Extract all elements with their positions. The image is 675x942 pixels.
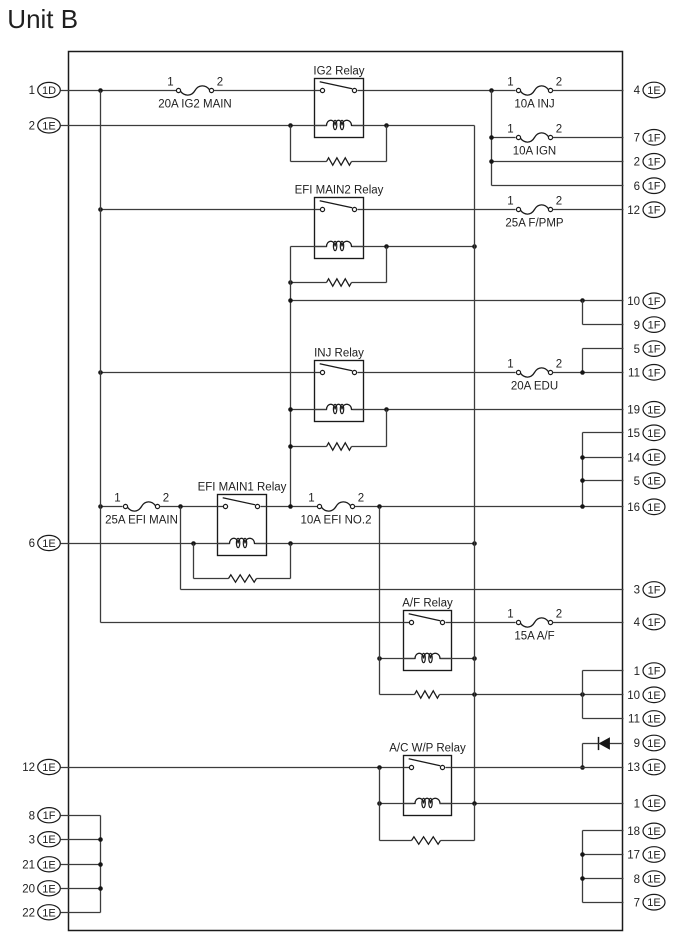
svg-text:19: 19 <box>627 405 640 417</box>
svg-text:1E: 1E <box>42 883 55 895</box>
svg-text:11: 11 <box>628 368 640 380</box>
pin 20 (1E) left <box>22 881 60 896</box>
svg-text:15A A/F: 15A A/F <box>514 630 554 642</box>
svg-text:20: 20 <box>22 884 35 896</box>
svg-text:1E: 1E <box>647 714 660 726</box>
relay INJ: switch contact <box>315 364 364 375</box>
svg-text:1E: 1E <box>647 85 660 97</box>
wire control bus to pin 10(1F) <box>288 298 623 303</box>
pin 3 (1F) right <box>634 582 665 598</box>
wire pin 8(1E) tie <box>580 876 623 881</box>
svg-text:2: 2 <box>634 157 640 169</box>
wire pin 18(1E) tie <box>583 831 624 903</box>
pin 7 (1F) right <box>634 130 665 146</box>
svg-text:9: 9 <box>634 738 640 750</box>
pin 10 (1F) right <box>627 293 665 309</box>
node: top-right bus tap on 4(1E) line <box>489 88 494 93</box>
svg-text:22: 22 <box>22 908 35 920</box>
wire pin 5(1E) tie <box>580 478 623 483</box>
svg-text:1: 1 <box>507 77 513 89</box>
node: A/F coil tap on EFI NO.2 bus <box>377 656 382 661</box>
pin 8 (1F) left <box>29 808 61 823</box>
wire pin1(1D) to fuse 20A IG2 MAIN <box>61 90 177 92</box>
pin 3 (1E) left <box>29 832 61 847</box>
svg-text:1: 1 <box>114 493 120 505</box>
svg-text:1E: 1E <box>647 738 660 750</box>
svg-text:10: 10 <box>627 690 640 702</box>
svg-text:1: 1 <box>634 798 640 810</box>
wire pin 12(1E) to A/C W/P switch <box>61 767 404 769</box>
svg-text:1E: 1E <box>647 826 660 838</box>
relay A/C W/P: box <box>389 743 466 816</box>
svg-text:1E: 1E <box>647 762 660 774</box>
pin 11 (1E) right <box>628 711 665 727</box>
relay A/F: coil <box>404 653 452 663</box>
node: IG2 resistor left tap <box>288 123 293 128</box>
svg-text:5: 5 <box>634 344 640 356</box>
wire EFI NO.2 output bus <box>379 507 381 695</box>
wire fuse to EFI MAIN1 relay switch <box>160 506 218 508</box>
node: A/C W/P coil left tap <box>377 801 382 806</box>
svg-text:2: 2 <box>556 196 562 208</box>
pin 8 (1E) right <box>634 871 665 887</box>
svg-text:1E: 1E <box>42 859 55 871</box>
relay INJ: box <box>314 348 364 422</box>
pin 22 (1E) left <box>22 905 60 920</box>
svg-text:1F: 1F <box>43 810 56 822</box>
wire pin 3(1E) tie <box>61 837 103 842</box>
wire feed bus to INJ relay switch <box>101 372 315 374</box>
svg-text:2: 2 <box>163 493 169 505</box>
fuse 10A INJ <box>507 77 562 111</box>
svg-text:17: 17 <box>627 850 640 862</box>
wire A/C W/P coil line to pin 1(1E) <box>380 803 624 805</box>
svg-text:2: 2 <box>556 77 562 89</box>
wire fuse 10A INJ to pin 4(1E) <box>553 90 624 92</box>
node: IG2 resistor right tap <box>384 123 389 128</box>
relay EFI MAIN1: switch contact <box>218 498 267 509</box>
pin 10 (1E) right <box>627 687 665 703</box>
diode (cathode left) <box>599 737 610 750</box>
pin 6 (1E) left <box>29 535 61 550</box>
svg-text:EFI MAIN1 Relay: EFI MAIN1 Relay <box>198 482 287 494</box>
wire EFI MAIN1 output tap to pin 3(1F) <box>181 507 624 590</box>
relay IG2: coil <box>315 120 364 130</box>
svg-text:1E: 1E <box>42 907 55 919</box>
svg-text:20A IG2 MAIN: 20A IG2 MAIN <box>158 98 232 110</box>
wire feed bus down to A/F relay switch <box>101 507 404 623</box>
wire pin 8(1F) tie <box>61 816 101 913</box>
svg-text:1E: 1E <box>42 120 55 132</box>
svg-text:1E: 1E <box>647 502 660 514</box>
svg-text:11: 11 <box>628 714 640 726</box>
svg-text:15: 15 <box>627 428 640 440</box>
wire INJ switch to fuse 20A EDU <box>364 372 516 374</box>
unit boundary box <box>69 52 623 931</box>
svg-text:1E: 1E <box>647 850 660 862</box>
svg-text:1E: 1E <box>647 690 660 702</box>
wire fuse 10A EFI NO.2 to pin 16(1E) <box>355 506 624 508</box>
relay A/C W/P: switch contact <box>404 759 452 770</box>
relay IG2: box <box>313 66 364 138</box>
resistor across IG2 coil <box>291 126 387 166</box>
wire feed bus to fuse 25A EFI MAIN <box>98 504 122 509</box>
svg-text:20A EDU: 20A EDU <box>511 380 558 392</box>
pin 9 (1F) right <box>634 317 665 333</box>
wire bus to pin 2(1F) <box>489 159 623 164</box>
node: INJ feed tap <box>98 370 103 375</box>
pin 15 (1E) right <box>627 425 665 441</box>
svg-text:1E: 1E <box>42 834 55 846</box>
fuse 20A IG2 MAIN <box>158 77 232 111</box>
svg-text:1: 1 <box>167 77 173 89</box>
pin 17 (1E) right <box>627 847 665 863</box>
svg-text:1E: 1E <box>647 428 660 440</box>
svg-text:1F: 1F <box>648 181 661 193</box>
wire bus to fuse 10A IGN <box>492 137 516 139</box>
node: 3(1F) tap <box>178 504 183 509</box>
relay EFI MAIN2: coil <box>315 241 364 251</box>
relay IG2: switch contact <box>315 82 364 93</box>
relay A/F: box <box>402 598 453 671</box>
node: A/F resistor / coil-return bus junction <box>472 692 477 697</box>
svg-text:IG2 Relay: IG2 Relay <box>313 66 364 78</box>
svg-text:5: 5 <box>634 476 640 488</box>
wire pin 22(1E) tie <box>61 912 101 914</box>
fuse 15A A/F <box>507 609 562 643</box>
svg-text:1E: 1E <box>647 874 660 886</box>
pin 1 (1D) left <box>29 82 61 97</box>
svg-text:10A EFI NO.2: 10A EFI NO.2 <box>301 514 372 526</box>
pin 9 (1E) right <box>634 735 665 751</box>
svg-text:1: 1 <box>507 124 513 136</box>
wire diode to 13(1E) line <box>583 744 599 768</box>
node: EFI MAIN2 resistor right tap <box>384 244 389 249</box>
pin 6 (1F) right <box>634 178 665 194</box>
node: A/C W/P coil feed tap <box>377 765 382 770</box>
svg-text:1E: 1E <box>647 897 660 909</box>
svg-text:1E: 1E <box>647 476 660 488</box>
wire pin 7(1E) tie <box>583 902 624 904</box>
svg-text:2: 2 <box>29 121 35 133</box>
wire fuse 15A A/F to pin 4(1F) <box>553 622 624 624</box>
svg-text:3: 3 <box>29 834 35 846</box>
svg-text:1F: 1F <box>648 320 661 332</box>
node: EFI MAIN2 resistor tap on control bus <box>288 280 293 285</box>
node: EFI NO.2 output bus tap <box>377 504 382 509</box>
resistor across A/C W/P coil <box>380 804 475 845</box>
wire EFI NO.2 bus to A/F coil and coil-return bus <box>380 658 475 660</box>
svg-text:13: 13 <box>627 762 640 774</box>
svg-text:1F: 1F <box>648 156 661 168</box>
svg-text:1E: 1E <box>42 762 55 774</box>
wire pin 20(1E) tie <box>61 886 103 891</box>
pin 12 (1E) left <box>22 759 60 774</box>
pin 1 (1F) right <box>634 663 665 679</box>
node: feed bus tap at pin1 line <box>98 88 103 93</box>
svg-text:1E: 1E <box>647 404 660 416</box>
fuse 25A EFI MAIN <box>105 493 178 527</box>
svg-text:2: 2 <box>556 359 562 371</box>
pin 18 (1E) right <box>627 823 665 839</box>
svg-text:16: 16 <box>627 502 640 514</box>
wire fuse 10A IGN to pin 7(1F) <box>553 137 624 139</box>
svg-text:25A F/PMP: 25A F/PMP <box>505 217 563 229</box>
pin 13 (1E) right <box>627 759 665 775</box>
svg-text:10A INJ: 10A INJ <box>514 98 554 110</box>
wire pin 6(1E) to EFI MAIN1 coil and to coil-return bus <box>61 543 475 545</box>
node: INJ resistor right tap <box>384 407 389 412</box>
node: INJ resistor tap on control bus <box>288 444 293 449</box>
fuse 10A IGN <box>507 124 562 158</box>
relay INJ: coil <box>315 404 364 414</box>
node: diode tap on 13(1E) line <box>580 765 585 770</box>
svg-text:12: 12 <box>627 205 640 217</box>
svg-text:6: 6 <box>29 538 35 550</box>
node: EFI MAIN1 resistor right tap <box>288 541 293 546</box>
wire main feed bus from pin 1(1D) <box>100 91 102 507</box>
svg-text:INJ Relay: INJ Relay <box>314 348 364 360</box>
relay A/F: switch contact <box>404 614 452 625</box>
node: EFI MAIN1 resistor left tap <box>191 541 196 546</box>
wire pin2(1E) to IG2 coil and on to coil-return bus <box>61 125 475 127</box>
svg-text:4: 4 <box>634 617 641 629</box>
fuse 20A EDU <box>507 359 562 393</box>
wire pin 17(1E) tie <box>580 852 623 857</box>
resistor across A/F coil, line continues to pin 10(1E) <box>380 691 624 698</box>
wire feed bus to EFI MAIN2 switch <box>101 209 315 211</box>
svg-text:1D: 1D <box>42 85 56 97</box>
svg-text:25A EFI MAIN: 25A EFI MAIN <box>105 514 178 526</box>
svg-text:2: 2 <box>556 609 562 621</box>
svg-text:8: 8 <box>634 874 640 886</box>
relay A/C W/P: coil <box>404 798 452 808</box>
svg-text:1F: 1F <box>648 205 661 217</box>
svg-text:6: 6 <box>634 181 640 193</box>
wire A/F switch to fuse 15A A/F <box>452 622 516 624</box>
wire pin 11(1E) tie <box>583 718 624 720</box>
node: A/C W/P coil return (end of coil-return bus) <box>472 801 477 806</box>
node: 10(1E) tie junction <box>580 692 585 697</box>
node: A/F coil return tap <box>472 656 477 661</box>
svg-text:A/F Relay: A/F Relay <box>402 598 453 610</box>
svg-text:7: 7 <box>634 897 640 909</box>
wire INJ coil line to pin 19(1E) <box>291 409 624 411</box>
svg-text:1F: 1F <box>648 367 661 379</box>
pin 19 (1E) right <box>627 402 665 418</box>
svg-text:1F: 1F <box>648 344 661 356</box>
svg-text:1: 1 <box>507 196 513 208</box>
relay EFI MAIN2: box <box>295 185 384 259</box>
wire pin 1(1F) tie <box>583 671 624 719</box>
wire fuse 25A F/PMP to pin 12(1F) <box>553 209 624 211</box>
pin 11 (1F) right <box>628 365 665 381</box>
svg-text:A/C W/P Relay: A/C W/P Relay <box>389 743 466 755</box>
node: INJ coil tap on control bus <box>288 407 293 412</box>
wire EFI MAIN2 switch to fuse 25A F/PMP <box>364 209 516 211</box>
svg-text:1E: 1E <box>647 798 660 810</box>
wire IG2 relay switch to fuse 10A INJ <box>364 90 516 92</box>
pin 5 (1E) right <box>634 473 665 489</box>
svg-text:8: 8 <box>29 810 35 822</box>
pin 7 (1E) right <box>634 894 665 910</box>
wire A/C W/P switch to pin 13(1E) <box>452 767 624 769</box>
pin 21 (1E) left <box>22 857 60 872</box>
wire fuse to IG2 relay switch <box>214 90 315 92</box>
svg-text:4: 4 <box>634 85 641 97</box>
svg-text:Unit B: Unit B <box>7 4 78 34</box>
svg-text:1: 1 <box>634 666 640 678</box>
node: 16(1E) tie <box>580 504 585 509</box>
svg-text:3: 3 <box>634 585 640 597</box>
wire pin 5(1F) tie <box>580 349 623 375</box>
svg-text:1: 1 <box>29 85 35 97</box>
svg-text:1E: 1E <box>647 452 660 464</box>
wire A/C W/P switch feed down to resistor <box>379 768 381 841</box>
wire relay control bus (EFI MAIN1 output) <box>290 247 292 507</box>
resistor across EFI MAIN1 coil <box>194 544 291 583</box>
wire top-right distribution bus <box>492 91 624 186</box>
resistor across EFI MAIN2 coil <box>291 247 387 287</box>
wire EFI MAIN2 coil line to buses <box>291 246 475 248</box>
svg-text:1: 1 <box>507 609 513 621</box>
pin 5 (1F) right <box>634 341 665 357</box>
pin 16 (1E) right <box>627 499 665 515</box>
fuse 10A EFI NO.2 <box>301 493 372 527</box>
node: EFI MAIN1 coil return tap <box>472 541 477 546</box>
node: EFI MAIN2 feed tap <box>98 207 103 212</box>
wire pin 15(1E) tie <box>583 433 624 507</box>
relay EFI MAIN2: switch contact <box>315 201 364 212</box>
svg-text:21: 21 <box>22 860 35 872</box>
wire EFI MAIN1 switch to fuse 10A EFI NO.2 <box>267 506 318 508</box>
wire coil-return bus (from IG2 coil) <box>474 126 476 804</box>
wire pin 14(1E) tie <box>580 455 623 460</box>
resistor across INJ coil <box>291 410 387 451</box>
relay EFI MAIN1: coil <box>218 538 267 548</box>
svg-text:18: 18 <box>627 826 640 838</box>
relay EFI MAIN1: box <box>198 482 287 556</box>
wire tie to pin 9(1F) <box>583 301 624 325</box>
fuse 25A F/PMP <box>505 196 563 230</box>
svg-text:1F: 1F <box>648 666 661 678</box>
wire fuse 20A EDU to pin 11(1F) <box>553 372 624 374</box>
svg-text:1: 1 <box>308 493 314 505</box>
node: 10A IGN tap <box>489 135 494 140</box>
svg-text:1F: 1F <box>648 617 661 629</box>
svg-text:1F: 1F <box>648 585 661 597</box>
svg-text:1F: 1F <box>648 296 661 308</box>
svg-text:2: 2 <box>358 493 364 505</box>
wire pin 9(1E) to diode <box>610 743 624 745</box>
wire pin 21(1E) tie <box>61 862 103 867</box>
pin 12 (1F) right <box>627 202 665 218</box>
pin 2 (1F) right <box>634 154 665 170</box>
svg-text:1: 1 <box>507 359 513 371</box>
node: 10(1F)/9(1F) tie <box>580 298 585 303</box>
pin 1 (1E) right <box>634 795 665 811</box>
node: control bus source at EFI MAIN1 output <box>288 504 293 509</box>
svg-text:2: 2 <box>217 77 223 89</box>
pin 14 (1E) right <box>627 449 665 465</box>
pin 4 (1E) right <box>634 82 665 98</box>
svg-text:1F: 1F <box>648 132 661 144</box>
svg-text:7: 7 <box>634 133 640 145</box>
node: EFI MAIN2 coil return tap <box>472 244 477 249</box>
svg-text:12: 12 <box>22 762 35 774</box>
svg-text:2: 2 <box>556 124 562 136</box>
svg-text:10A IGN: 10A IGN <box>513 145 556 157</box>
svg-text:9: 9 <box>634 320 640 332</box>
svg-text:1E: 1E <box>42 538 55 550</box>
svg-text:EFI MAIN2 Relay: EFI MAIN2 Relay <box>295 185 384 197</box>
svg-text:10: 10 <box>627 296 640 308</box>
pin 2 (1E) left <box>29 118 61 133</box>
svg-text:14: 14 <box>627 452 640 464</box>
pin 4 (1F) right <box>634 614 665 630</box>
